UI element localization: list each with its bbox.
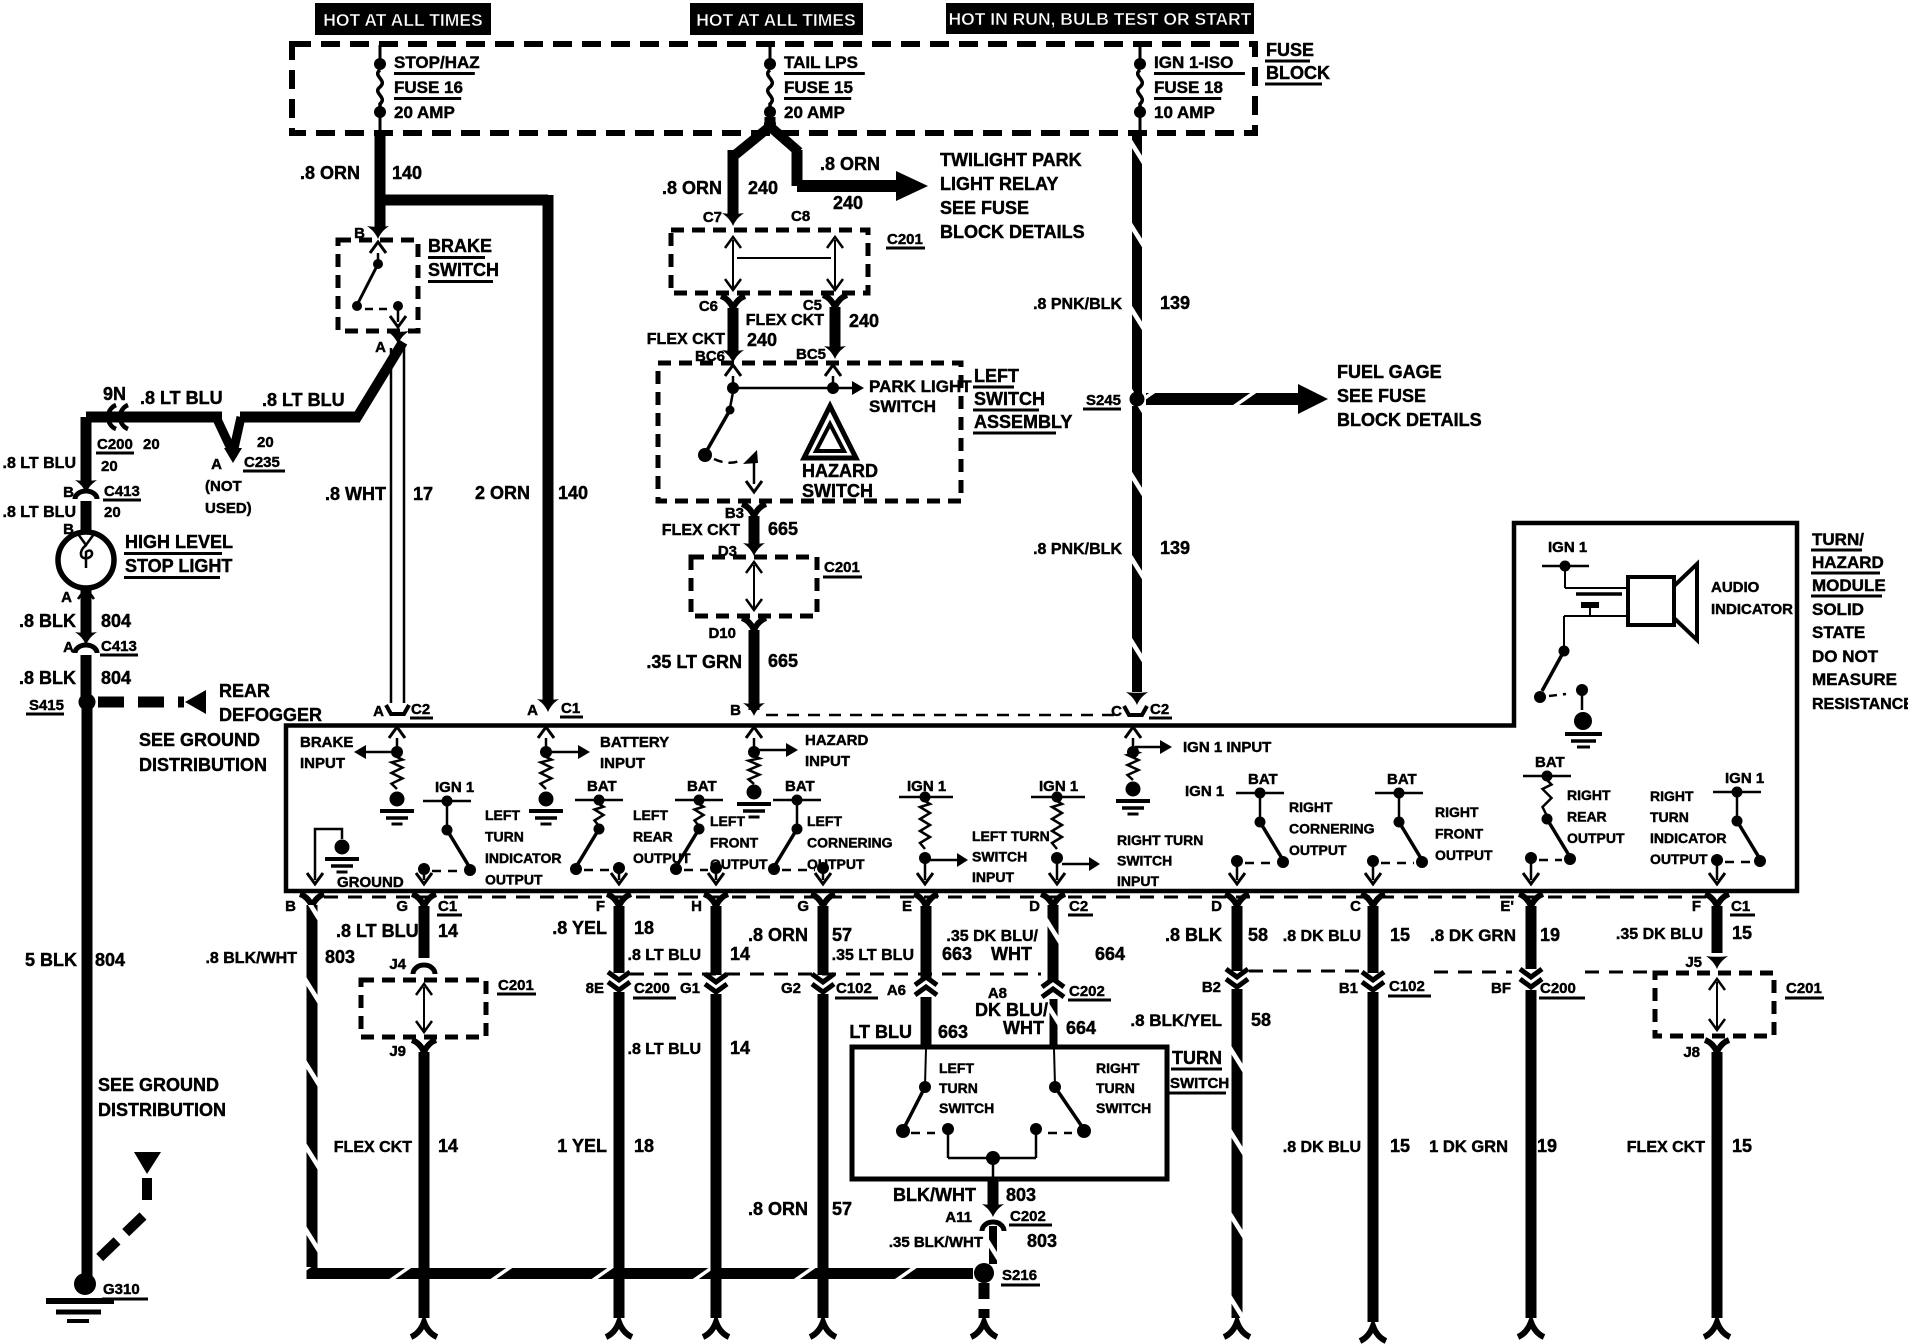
wire .8 PNK/BLK 139 hatched upper [1132,133,1142,395]
svg-text:.8 WHT: .8 WHT [325,484,386,504]
svg-text:139: 139 [1160,538,1190,558]
svg-text:OUTPUT: OUTPUT [710,856,768,872]
svg-text:G: G [797,898,809,915]
second dashed connector row [630,973,1041,976]
svg-text:FRONT: FRONT [710,835,759,851]
svg-text:14: 14 [730,944,750,964]
svg-text:A: A [373,703,384,720]
svg-text:RESISTANCE: RESISTANCE [1812,696,1908,713]
svg-text:663: 663 [942,944,972,964]
svg-text:139: 139 [1160,293,1190,313]
svg-text:1 YEL: 1 YEL [557,1136,607,1156]
svg-text:.8 LT BLU: .8 LT BLU [336,921,419,941]
wire .8 WHT 17 thin pair [390,348,393,703]
svg-text:ASSEMBLY: ASSEMBLY [974,412,1072,432]
wire .8 ORN 57 [818,906,829,975]
svg-text:57: 57 [832,925,852,945]
svg-text:C: C [1350,898,1361,915]
bottom connector C wire [1360,1326,1386,1341]
svg-text:STOP LIGHT: STOP LIGHT [125,556,232,576]
svg-text:240: 240 [747,330,777,350]
dashed link B to C C2 [766,714,1120,717]
hatched elbow to S216 [307,1267,974,1279]
svg-text:INPUT: INPUT [600,755,645,772]
svg-text:SWITCH: SWITCH [974,389,1045,409]
svg-text:.8 PNK/BLK: .8 PNK/BLK [1033,541,1122,558]
splice S245 [1130,392,1145,407]
svg-text:FRONT: FRONT [1435,826,1484,842]
C201 upper internal pins [732,240,734,288]
svg-text:IGN 1: IGN 1 [1725,770,1764,787]
svg-text:10 AMP: 10 AMP [1154,103,1215,122]
svg-text:C201: C201 [1786,980,1822,997]
svg-text:20 AMP: 20 AMP [394,103,455,122]
dashed arrow into G310 [134,1152,161,1174]
svg-text:18: 18 [634,918,654,938]
svg-text:HAZARD: HAZARD [1812,553,1884,572]
svg-text:BATTERY: BATTERY [600,734,669,751]
svg-text:USED): USED) [205,500,252,517]
svg-text:C235: C235 [244,454,280,471]
header box HOT IN RUN, BULB TEST OR START [946,3,1254,34]
svg-text:S245: S245 [1086,392,1121,409]
bottom connector G wire [810,1322,836,1337]
svg-text:FUSE 15: FUSE 15 [784,78,853,97]
svg-text:18: 18 [634,1136,654,1156]
svg-text:HAZARD: HAZARD [805,732,868,749]
connector C201 mid dashed box [691,557,817,616]
svg-text:.8 BLK/WHT: .8 BLK/WHT [205,950,297,967]
svg-text:FUSE: FUSE [1266,40,1314,60]
wire fork below fuse 15 [765,117,776,127]
svg-text:E: E [902,898,912,915]
svg-text:.8 LT BLU: .8 LT BLU [262,390,345,410]
park light switch contacts [725,365,741,376]
brake switch contacts [370,242,386,253]
wire .8 BLK/WHT 803 hatched [307,905,318,1267]
svg-text:BRAKE: BRAKE [300,734,353,751]
svg-text:A6: A6 [887,982,906,999]
wire .8 ORN 57 lower [818,994,829,1318]
bottom connector G C1 wire [411,1322,437,1337]
svg-text:REAR: REAR [219,681,270,701]
wire FLEX CKT 665 [749,516,760,546]
svg-text:140: 140 [392,163,422,183]
audio ground symbol [1574,712,1592,730]
svg-text:665: 665 [768,651,798,671]
svg-text:240: 240 [748,178,778,198]
svg-text:BAT: BAT [587,778,617,795]
header box HOT AT ALL TIMES (left) [315,3,491,35]
svg-text:664: 664 [1066,1018,1096,1038]
wire 1 DK GRN 19 [1526,990,1537,1318]
svg-text:C7: C7 [703,209,722,226]
connector C C2 female [1124,706,1147,715]
svg-text:OUTPUT: OUTPUT [1650,851,1708,867]
wire .8 LT BLU 14 lower (H) [711,994,722,1318]
svg-text:SWITCH: SWITCH [428,260,499,280]
svg-text:17: 17 [413,484,433,504]
svg-text:FLEX CKT: FLEX CKT [746,312,824,329]
svg-text:.8 DK GRN: .8 DK GRN [1430,926,1516,945]
wire .8 LT BLU left run [86,412,222,423]
svg-text:.8 PNK/BLK: .8 PNK/BLK [1033,296,1122,313]
turn/hazard module box [286,523,1797,891]
connector C200 arcs [108,405,116,429]
svg-text:19: 19 [1537,1136,1557,1156]
svg-text:RIGHT TURN: RIGHT TURN [1117,832,1203,848]
svg-text:S415: S415 [29,697,64,714]
svg-text:DISTRIBUTION: DISTRIBUTION [139,755,267,775]
wire .8 ORN 140 from fuse 16 [375,133,386,228]
svg-text:CORNERING: CORNERING [1289,821,1375,837]
svg-text:B: B [63,484,74,501]
wire to stop light [81,501,92,533]
svg-text:.8 BLK: .8 BLK [19,668,76,688]
svg-text:LIGHT RELAY: LIGHT RELAY [940,174,1058,194]
bottom connector F C1 wire [1704,1322,1730,1337]
svg-text:LEFT: LEFT [710,813,745,829]
svg-text:HOT IN RUN, BULB TEST OR START: HOT IN RUN, BULB TEST OR START [949,9,1252,29]
svg-text:INPUT: INPUT [805,753,850,770]
svg-text:15: 15 [1390,1136,1410,1156]
svg-text:MEASURE: MEASURE [1812,670,1897,689]
svg-text:OUTPUT: OUTPUT [1435,847,1493,863]
svg-text:FLEX CKT: FLEX CKT [662,522,740,539]
wire FLEX CKT 240 C6 [728,308,739,355]
svg-text:2 ORN: 2 ORN [475,483,530,503]
svg-text:J9: J9 [389,1043,406,1060]
svg-text:803: 803 [1027,1231,1057,1251]
svg-text:C2: C2 [1069,898,1088,915]
svg-text:H: H [691,898,702,915]
male arrow into brake switch [367,226,389,239]
module terminal battery input [538,727,554,738]
C201 mid internal pin [753,565,755,608]
svg-text:.8 DK BLU: .8 DK BLU [1283,928,1361,945]
svg-text:C202: C202 [1069,983,1105,1000]
wire .35 LT GRN 665 [749,630,760,710]
svg-text:58: 58 [1251,1010,1271,1030]
svg-text:INPUT: INPUT [972,869,1014,885]
svg-text:LEFT: LEFT [974,366,1019,386]
brake input resistor to ground [392,757,403,789]
high level stop light lamp [58,532,114,588]
svg-text:20: 20 [104,504,121,521]
svg-text:A: A [211,456,222,473]
wire .8 DK BLU 15 lower [1368,992,1379,1322]
svg-text:D10: D10 [708,625,736,642]
svg-text:BF: BF [1491,980,1511,997]
svg-text:TWILIGHT PARK: TWILIGHT PARK [940,150,1082,170]
svg-text:.35 DK BLU/: .35 DK BLU/ [946,928,1038,945]
svg-text:A: A [375,339,386,356]
connector C6 female [721,296,745,308]
svg-text:.8 ORN: .8 ORN [748,925,808,945]
svg-text:C102: C102 [836,980,872,997]
svg-text:IGN 1 INPUT: IGN 1 INPUT [1183,739,1271,756]
connector BC6 male arrow [722,350,744,363]
wire .8 ORN 240 to twilight relay [792,150,803,186]
svg-text:BAT: BAT [1535,754,1565,771]
wire DK BLU/WHT 664 into turn switch [1050,999,1058,1049]
turn switch common junction [986,1151,1000,1165]
connector C201 upper dashed box [671,230,868,293]
svg-text:FUSE 18: FUSE 18 [1154,78,1223,97]
IGN 1 input resistor to ground [1128,750,1139,780]
svg-text:.8 LT BLU: .8 LT BLU [3,504,76,521]
svg-text:TAIL LPS: TAIL LPS [784,53,858,72]
bottom connector F wire [606,1322,632,1337]
svg-text:.8 BLK/YEL: .8 BLK/YEL [1130,1011,1222,1030]
C201 left internal pin [423,987,425,1030]
svg-text:FLEX CKT: FLEX CKT [647,331,725,348]
svg-text:663: 663 [938,1022,968,1042]
brake switch dashed box [338,240,418,331]
svg-text:DO NOT: DO NOT [1812,647,1879,666]
svg-text:IGN 1-ISO: IGN 1-ISO [1154,53,1233,72]
svg-text:OUTPUT: OUTPUT [1567,830,1625,846]
svg-text:20: 20 [257,434,274,451]
svg-text:G: G [396,898,408,915]
svg-text:19: 19 [1540,925,1560,945]
svg-text:HAZARD: HAZARD [802,461,878,481]
wire FLEX CKT 240 C5 [830,307,841,350]
bottom connector E' wire [1518,1322,1544,1337]
wire BLK/WHT 803 hatched [988,1179,999,1207]
svg-text:803: 803 [1006,1185,1036,1205]
svg-text:9N: 9N [103,384,126,404]
audio battery symbol [1564,566,1566,588]
svg-text:INPUT: INPUT [300,755,345,772]
svg-text:C200: C200 [634,980,670,997]
svg-text:RIGHT: RIGHT [1650,788,1694,804]
svg-text:D: D [1211,898,1222,915]
svg-text:.8 ORN: .8 ORN [748,1199,808,1219]
module ground leg [315,829,342,880]
svg-text:665: 665 [768,519,798,539]
svg-text:C413: C413 [104,483,140,500]
hazard switch contacts [730,392,733,408]
svg-text:57: 57 [832,1199,852,1219]
svg-text:IGN 1: IGN 1 [1185,783,1224,800]
wire FLEX CKT 15 [1712,1052,1723,1318]
svg-text:IGN 1: IGN 1 [435,779,474,796]
svg-text:.8 ORN: .8 ORN [662,178,722,198]
wire .8 DK BLU 15 [1368,906,1379,973]
svg-text:C8: C8 [791,208,810,225]
svg-text:INPUT: INPUT [1117,873,1159,889]
svg-text:C2: C2 [411,701,430,718]
svg-text:C6: C6 [699,298,718,315]
svg-text:C201: C201 [498,977,534,994]
label A below brake switch [387,331,409,344]
svg-text:F: F [596,898,605,915]
svg-text:TURN: TURN [1172,1048,1222,1068]
svg-text:OUTPUT: OUTPUT [1289,842,1347,858]
wire .8 BLK 58 [1232,906,1243,971]
svg-text:TURN: TURN [939,1080,978,1096]
svg-text:.8 LT BLU: .8 LT BLU [140,388,223,408]
ground G310 [74,1273,96,1295]
dashed wire below S216 [979,1283,990,1318]
svg-text:SEE FUSE: SEE FUSE [940,198,1029,218]
svg-text:REAR: REAR [633,829,673,845]
svg-text:803: 803 [325,947,355,967]
svg-text:LEFT: LEFT [633,807,668,823]
svg-text:INDICATOR: INDICATOR [1711,601,1793,618]
dashed wire to rear defogger [98,697,184,708]
svg-text:RIGHT: RIGHT [1096,1060,1140,1076]
svg-text:WHT: WHT [1003,1018,1044,1038]
wire .35 DK BLU 15 [1712,906,1723,953]
connector C235 V not used [233,417,241,453]
svg-text:5 BLK: 5 BLK [25,950,77,970]
svg-text:.35 DK BLU: .35 DK BLU [1616,926,1703,943]
svg-text:LEFT: LEFT [939,1060,974,1076]
svg-text:SWITCH: SWITCH [1096,1100,1151,1116]
bottom connector D wire [1224,1322,1250,1337]
connector C7 male arrow [722,213,744,226]
svg-text:RIGHT: RIGHT [1435,804,1479,820]
svg-text:DK BLU/: DK BLU/ [975,1000,1048,1020]
svg-text:C201: C201 [887,231,923,248]
svg-text:.8 LT BLU: .8 LT BLU [628,947,701,964]
wire .35 BLK/WHT 803 hatched [989,1226,997,1264]
svg-text:FUEL GAGE: FUEL GAGE [1337,362,1442,382]
svg-text:A: A [61,589,72,606]
bottom connector S216 wire [971,1322,997,1337]
wire .8 YEL 18 [614,906,625,973]
audio speaker wires [1588,587,1628,589]
svg-text:G1: G1 [680,980,700,997]
svg-text:REAR: REAR [1567,809,1607,825]
svg-text:BLOCK DETAILS: BLOCK DETAILS [940,222,1085,242]
svg-text:14: 14 [438,921,458,941]
connector C5 female [823,295,847,307]
svg-text:1 DK GRN: 1 DK GRN [1429,1138,1508,1156]
svg-text:140: 140 [558,483,588,503]
wire .35 LT BLU 663 [921,906,932,978]
svg-text:J8: J8 [1683,1044,1700,1061]
svg-text:TURN: TURN [1096,1080,1135,1096]
svg-text:C200: C200 [97,436,133,453]
svg-text:804: 804 [95,950,125,970]
wire .8 LT BLU 14 [419,906,430,958]
svg-text:15: 15 [1390,925,1410,945]
svg-text:TURN: TURN [485,829,524,845]
svg-text:A: A [527,702,538,719]
svg-text:BRAKE: BRAKE [428,236,492,256]
connector B C413 20 [75,480,97,493]
svg-text:BAT: BAT [1248,771,1278,788]
svg-text:8E: 8E [586,980,604,997]
svg-text:15: 15 [1732,1136,1752,1156]
svg-text:BAT: BAT [687,778,717,795]
svg-text:OUTPUT: OUTPUT [807,856,865,872]
svg-text:240: 240 [833,193,863,213]
svg-text:RIGHT: RIGHT [1289,799,1333,815]
left switch assembly dashed box [658,363,961,501]
wire 2 ORN elbow branch [375,195,548,206]
svg-text:LEFT: LEFT [485,807,520,823]
wire .8 DK GRN 19 [1526,906,1537,969]
wire .8 BLK 804 lower [81,655,92,697]
svg-text:WHT: WHT [991,944,1032,964]
hatched arrow to fuel gage [1146,393,1298,405]
svg-text:240: 240 [849,311,879,331]
svg-text:C1: C1 [1731,898,1750,915]
svg-text:BAT: BAT [1387,771,1417,788]
wire .8 BLK 804 upper [81,590,92,633]
svg-text:J5: J5 [1685,954,1702,971]
svg-text:BLOCK DETAILS: BLOCK DETAILS [1337,410,1482,430]
audio indicator speaker [1628,577,1674,625]
svg-text:SWITCH: SWITCH [939,1100,994,1116]
svg-text:20: 20 [101,458,118,475]
svg-text:804: 804 [101,668,131,688]
svg-text:B: B [730,702,741,719]
svg-text:SWITCH: SWITCH [802,481,873,501]
svg-text:.8 LT BLU: .8 LT BLU [628,1041,701,1058]
svg-text:BLK/WHT: BLK/WHT [893,1185,976,1205]
svg-text:FUSE 16: FUSE 16 [394,78,463,97]
module terminal hazard input [746,727,762,738]
svg-text:E': E' [1500,898,1514,915]
connector C201 left dashed box [361,980,486,1037]
svg-text:58: 58 [1248,925,1268,945]
connector BC5 male arrow [824,346,846,359]
svg-text:DEFOGGER: DEFOGGER [219,705,322,725]
svg-text:C: C [1111,703,1122,720]
fuse block dashed box [292,44,1255,133]
battery input resistor to ground [541,757,552,789]
svg-text:FLEX CKT: FLEX CKT [1627,1139,1705,1156]
svg-text:SOLID: SOLID [1812,600,1864,619]
svg-text:B2: B2 [1202,979,1221,996]
svg-text:C1: C1 [438,898,457,915]
svg-text:.8 DK BLU: .8 DK BLU [1283,1139,1361,1156]
svg-text:STATE: STATE [1812,623,1865,642]
svg-text:A11: A11 [945,1209,972,1226]
left turn switch contacts [925,1049,926,1085]
right turn switch contacts [1054,1049,1055,1085]
wire .8 LT BLU from brake switch A [356,342,403,419]
svg-text:HOT AT ALL TIMES: HOT AT ALL TIMES [323,10,482,30]
svg-text:AUDIO: AUDIO [1711,579,1760,596]
dashed connector row below module [324,896,1706,899]
svg-text:LT BLU: LT BLU [849,1022,912,1042]
svg-text:B: B [285,898,296,915]
svg-text:FLEX CKT: FLEX CKT [334,1139,412,1156]
svg-text:DISTRIBUTION: DISTRIBUTION [98,1100,226,1120]
svg-text:INDICATOR: INDICATOR [485,850,561,866]
svg-text:C102: C102 [1389,978,1425,995]
svg-text:PARK LIGHT: PARK LIGHT [869,377,972,396]
svg-text:BC5: BC5 [796,346,826,363]
svg-text:804: 804 [101,611,131,631]
svg-text:LEFT: LEFT [807,813,842,829]
svg-text:.35 LT BLU: .35 LT BLU [832,947,914,964]
svg-text:BLOCK: BLOCK [1266,63,1330,83]
svg-text:SEE GROUND: SEE GROUND [139,730,260,750]
audio ground switch [1559,646,1570,657]
wire LT BLU 663 into turn switch [921,997,932,1049]
svg-text:G310: G310 [103,1281,140,1298]
svg-text:CORNERING: CORNERING [807,835,893,851]
svg-text:C1: C1 [561,700,580,717]
svg-text:SWITCH: SWITCH [972,849,1027,865]
